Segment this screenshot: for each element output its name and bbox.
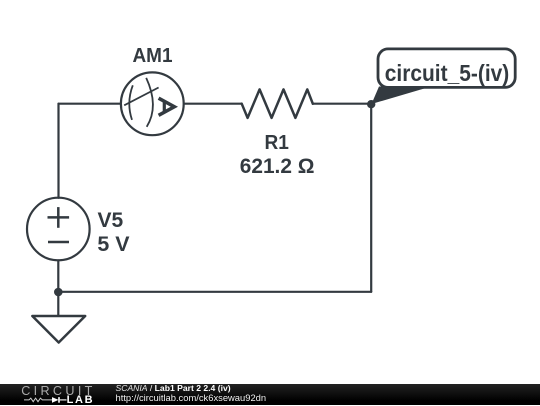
svg-text:circuit_5-(iv): circuit_5-(iv) [385,60,510,86]
footer title [116,384,231,393]
logo zigzag diode [24,396,67,404]
node label circuit_5-(iv) [378,49,515,88]
wire left vertical [57,104,59,198]
wire V5 bottom stub [57,260,59,316]
resistor R1 [242,89,313,118]
logo CIRCUIT [21,385,96,398]
svg-text:R1: R1 [265,131,289,154]
svg-text:621.2 Ω: 621.2 Ω [240,155,315,178]
wire resistor to node [313,103,371,105]
junction dot ground [54,288,63,297]
wire ammeter to resistor [184,103,242,105]
svg-text:5 V: 5 V [97,232,130,256]
ground [32,316,85,343]
svg-text:AM1: AM1 [133,45,173,67]
logo LAB [67,395,95,406]
svg-text:V5: V5 [98,209,124,232]
voltage source V5 [27,198,90,261]
node label tail [372,87,432,105]
ammeter AM1 [121,72,184,135]
footer url [116,393,267,402]
junction node dot [367,100,375,108]
wire top-left horizontal [59,103,121,105]
wire bottom horizontal [58,291,371,293]
wire right vertical [370,104,372,292]
